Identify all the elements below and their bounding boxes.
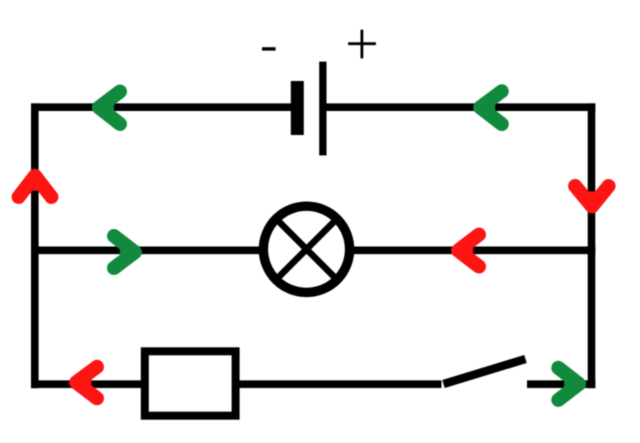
wire: middle left segment (to lamp) [31,247,263,255]
label: battery minus sign [262,47,276,50]
current arrow: green right, bottom-right wire [558,368,579,400]
battery B1 positive plate (long thin bar) [319,62,326,156]
current arrow: red left, middle-right wire [458,235,479,267]
current arrow: red left, bottom-left wire [76,367,97,399]
wire: left vertical branch [31,103,39,388]
wire: top right segment (from battery positive plate) [326,103,595,111]
wire: middle right segment (from lamp) [350,247,595,255]
wire: right vertical branch [588,103,596,388]
label: battery plus sign [348,30,376,59]
wire: bottom left segment (through resistor to switch) [31,380,442,388]
current arrow: red up, left branch [19,176,52,197]
resistor R1 (rectangle box) [145,351,236,415]
current arrow: green left, top-right wire [480,91,502,124]
current arrow: green left, top-left wire [99,92,120,125]
battery B1 negative plate (short thick bar) [291,81,304,135]
wire: bottom right stub (switch to right branch) [527,380,595,388]
lamp L1 (circle with X) [263,206,349,292]
current arrow: red down, right branch [575,186,609,206]
wire: top left segment (to battery negative plate) [31,103,292,111]
current arrow: green right, middle-left wire [114,236,135,268]
switch S1 (open lever) [444,359,526,384]
